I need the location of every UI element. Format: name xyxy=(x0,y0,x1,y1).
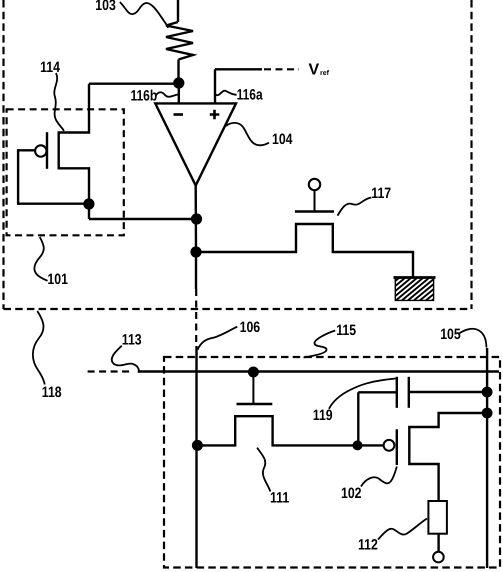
svg-text:111: 111 xyxy=(270,490,289,507)
svg-text:114: 114 xyxy=(40,59,60,76)
svg-text:V: V xyxy=(309,62,320,79)
svg-text:113: 113 xyxy=(122,331,142,348)
svg-text:104: 104 xyxy=(272,131,293,148)
svg-text:112: 112 xyxy=(358,537,378,554)
svg-text:119: 119 xyxy=(313,407,333,424)
svg-text:103: 103 xyxy=(95,0,116,14)
svg-text:115: 115 xyxy=(336,322,356,339)
svg-text:105: 105 xyxy=(440,326,461,343)
svg-text:118: 118 xyxy=(42,384,62,401)
svg-text:ref: ref xyxy=(320,69,330,77)
svg-text:116b: 116b xyxy=(131,88,158,105)
svg-text:117: 117 xyxy=(371,185,391,202)
svg-text:116a: 116a xyxy=(237,87,264,104)
svg-text:101: 101 xyxy=(47,271,68,288)
svg-text:102: 102 xyxy=(341,485,362,502)
svg-text:106: 106 xyxy=(240,319,261,336)
